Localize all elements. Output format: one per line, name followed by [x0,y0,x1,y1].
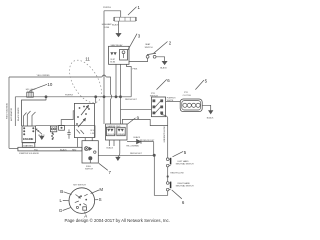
wire relay to bus [115,64,117,97]
wire module down 1 [108,140,110,146]
svg-text:PINK: PINK [133,68,138,70]
wire main bus upper yellow/red [9,75,112,124]
pin M [91,187,104,193]
svg-text:NEUTRAL SWITCH: NEUTRAL SWITCH [176,184,194,187]
svg-text:BLACK: BLACK [112,24,119,27]
svg-text:SEAT RELAY: SEAT RELAY [111,44,124,47]
node bus junction [153,154,155,156]
wire trunk middle [167,167,169,182]
callout 3 [128,34,141,50]
label PURPLE/WHITE [167,97,177,101]
svg-text:KEY SWITCH: KEY SWITCH [73,185,86,187]
wire engine harness 2 [32,112,36,126]
wire key switch down 2 [84,138,86,141]
callout 5 [195,79,207,90]
svg-text:HIGH AMP: HIGH AMP [102,23,112,26]
wire engine harness 0 [24,113,27,127]
wire relay pink [127,64,132,97]
wire right trunk green/yellow [161,115,168,158]
wire key switch down 3 [91,138,93,141]
callout 6 rh [172,190,185,205]
wire main bus purple [15,96,131,98]
ground module [116,157,120,160]
wire key switch down 1 [77,138,79,148]
wire key box side loop [61,111,74,126]
svg-text:YELLOW/RED: YELLOW/RED [126,145,140,147]
key switch detail circle [69,188,95,214]
svg-text:S: S [99,197,102,202]
svg-text:BLACK: BLACK [107,146,114,149]
wire module to ground [118,140,120,157]
wire left loop [8,77,10,148]
svg-text:GREEN/YELLOW: GREEN/YELLOW [164,126,166,142]
pin L [60,198,70,203]
label OIL LIGHT [26,89,37,93]
hour meter lamp [27,92,33,97]
pin A [84,212,87,219]
svg-text:LEFT HAND: LEFT HAND [178,160,190,163]
pto clutch L1 [183,92,192,97]
svg-text:PURPLE: PURPLE [65,95,74,97]
wire engine to key switch [36,126,96,138]
wire relay to seat switch [129,58,148,61]
right hand neutral switch S5 [166,182,170,191]
seat switch contacts [146,53,156,58]
label LEFT HAND NEUTRAL SWITCH [176,160,194,166]
svg-text:RED/YELLOW: RED/YELLOW [170,173,183,175]
svg-text:RED/VIOLET: RED/VIOLET [143,140,156,142]
callout 5 neutral [173,150,187,157]
callout 10 [30,82,53,91]
wire clutch to ground [202,105,211,110]
seat relay K1 [109,44,130,65]
pin S [95,197,102,202]
svg-text:PTO: PTO [184,92,189,94]
wire module down 2 [113,140,115,146]
svg-text:PURPLE: PURPLE [103,7,112,9]
svg-text:BLACK WHITE: BLACK WHITE [17,107,20,121]
wire engine ground diagonal [36,129,42,135]
callout 1 [128,5,141,15]
harness box engine area [22,100,47,126]
wire stub to harness box [45,97,47,100]
wire purple feed to fuse [104,11,121,97]
fuse F1 [113,17,136,21]
interlock component box 7 [82,141,98,163]
pin G [59,208,71,214]
svg-text:SEAT: SEAT [145,43,151,46]
wire pto switch to clutch [166,100,181,102]
callout 9 [127,116,140,125]
wire alternator drop [14,97,16,126]
svg-text:YELLOW: YELLOW [107,134,115,136]
wire engine harness 1 [27,111,30,126]
svg-text:BLACK: BLACK [207,117,214,120]
label 20 AMP FUSE [102,23,112,29]
svg-text:10: 10 [47,82,52,87]
connector small [59,125,65,130]
label component 7 [85,166,93,170]
svg-text:ALTERNATOR: ALTERNATOR [10,107,13,121]
wire to starter bar [9,147,18,149]
connector 2-pin [50,126,56,132]
svg-text:BLACK: BLACK [60,148,67,151]
ground engine [40,136,44,139]
svg-text:STARTER SOLENOID: STARTER SOLENOID [19,152,40,155]
svg-text:CLUTCH: CLUTCH [183,95,192,97]
svg-text:BLACK: BLACK [134,136,141,139]
svg-text:G: G [59,208,63,213]
svg-text:SWITCH: SWITCH [145,47,153,49]
wire relay line to pto switch [121,108,152,110]
wire relay to module [120,64,122,124]
coil symbol [52,133,54,140]
svg-text:FUEL SOLENOID: FUEL SOLENOID [6,103,8,119]
ground pto clutch [209,111,213,114]
engine block E1 [22,126,36,143]
pin B [60,189,71,194]
wire red/violet bus [98,154,154,156]
svg-text:SWITCH: SWITCH [85,169,93,171]
svg-text:FUSE: FUSE [104,27,110,29]
svg-text:M: M [99,187,103,192]
svg-text:Page design © 2004-2017 by All: Page design © 2004-2017 by All Network S… [65,218,170,223]
diode D1 [127,139,154,143]
svg-text:BLACK: BLACK [160,67,167,70]
pto clutch body [180,99,202,112]
svg-text:RED: RED [72,149,77,151]
svg-text:L M: L M [91,133,95,135]
wire diode to bus [153,142,155,156]
svg-text:11: 11 [85,57,90,62]
starter solenoid bar [18,147,82,151]
svg-text:YELLOW/RED: YELLOW/RED [37,75,51,77]
starter M1 [22,143,35,148]
seat relay internals [110,50,127,64]
label RIGHT HAND NEUTRAL SWITCH [176,182,194,188]
wire module to pto bottom [122,119,167,125]
callout 2 [154,41,172,54]
callout 7 [99,163,112,175]
wire fuse to ground [118,21,120,33]
svg-text:PTO: PTO [151,93,156,95]
seat switch S2 [145,43,153,49]
wire key switch feed [95,97,97,104]
ground seat switch [162,61,167,64]
svg-text:NEUTRAL SWITCH: NEUTRAL SWITCH [176,162,194,165]
svg-text:RIGHT HAND: RIGHT HAND [178,182,191,185]
harness ellipse 11 [63,55,108,108]
svg-text:WHITE: WHITE [167,100,174,102]
pto switch S3 [150,93,158,98]
capacitor [67,129,70,138]
key detail internals [75,194,88,210]
svg-text:ENGINE: ENGINE [23,137,34,141]
wire seat switch to ground [156,57,165,62]
svg-text:B: B [60,189,63,194]
pto switch body [151,97,165,117]
key switch S1 [74,103,94,137]
interlock module M2 [106,124,128,140]
ground fuse [116,33,121,36]
svg-text:RED/VIOLET: RED/VIOLET [125,99,138,101]
node trunk tick [167,176,169,178]
node bus purple junctions [45,96,122,98]
callout 6 [157,78,171,90]
wire module feed left [103,97,105,124]
wire trunk bottom loop [154,155,167,195]
svg-text:RED/VIOLET: RED/VIOLET [130,153,143,155]
svg-text:GREEN: GREEN [118,134,126,136]
key switch internals [76,105,94,135]
left hand neutral switch S4 [166,158,170,167]
